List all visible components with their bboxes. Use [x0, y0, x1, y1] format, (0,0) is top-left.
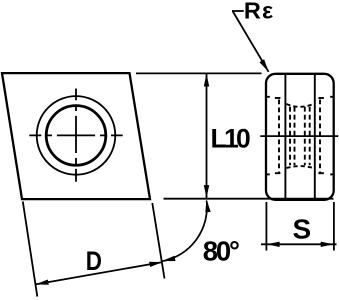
front view: horizontal centerline [29, 134, 122, 136]
side view: horizontal centerline [260, 135, 338, 137]
front view: hole bore circle [46, 106, 106, 166]
side view hidden: left edge tick top [266, 96, 270, 98]
dimension S: left arrowhead (points left) [267, 242, 280, 247]
side view hidden: bore curve bottom [286, 166, 313, 168]
angle 80°: arc [163, 201, 207, 262]
front view: vertical centerline [75, 89, 77, 182]
angle 80°: lower arrowhead (points down-left at extension line) [162, 256, 175, 261]
front view: countersink rim circle [37, 96, 116, 175]
dimension D: left extension line [23, 202, 38, 297]
corner radius leader: arrowhead [260, 59, 269, 72]
side view: left facet line [284, 75, 286, 199]
corner radius leader: diagonal line [233, 11, 269, 72]
side view: body outline (rounded rect) [266, 74, 334, 200]
side view hidden: outer dashed vertical right [319, 100, 321, 174]
side view hidden: bore dashed vertical 3 [304, 107, 306, 165]
svg-text:L10: L10 [211, 124, 251, 154]
side view hidden: countersink rim dash top-right [318, 97, 324, 99]
dimension L10: top extension line [136, 72, 262, 74]
dimension L10: bottom extension line [164, 198, 334, 200]
dimension D: right extension line [152, 203, 164, 279]
side view hidden: right edge tick top [330, 96, 334, 98]
dimension D: left arrowhead [36, 280, 49, 285]
svg-text:S: S [293, 213, 312, 244]
front view: insert body outline (80° parallelogram) [2, 73, 150, 199]
dimension S: right arrowhead (points right) [321, 242, 334, 247]
side view hidden: countersink rim dash bottom-right [318, 172, 324, 174]
side view hidden: right edge tick bottom [330, 173, 334, 175]
dimension S: dimension line [261, 243, 337, 245]
dimension S: right extension line [333, 202, 335, 251]
svg-text:80°: 80° [203, 235, 239, 266]
dimension L10: dimension line [206, 73, 208, 198]
side view hidden: outer dashed vertical left [278, 100, 280, 174]
dimension S: left extension line [265, 202, 267, 251]
dimension L10: bottom arrowhead [204, 185, 209, 198]
dimension D: dimension line [36, 262, 163, 284]
side view hidden: bore dashed vertical 1 [289, 107, 291, 165]
side view hidden: countersink rim dash top-left [275, 97, 281, 99]
side view hidden: bore dashed vertical 2 [294, 107, 296, 165]
dimension D: right arrowhead [149, 262, 162, 267]
svg-text:Rε: Rε [244, 0, 275, 23]
side view hidden: countersink rim dash bottom-left [275, 172, 281, 174]
corner radius leader: horizontal tail [232, 10, 244, 12]
dimension L10: top arrowhead [204, 74, 209, 87]
side view hidden: bore curve top [286, 104, 313, 107]
side view hidden: bore dashed vertical 4 [309, 107, 311, 165]
side view hidden: left edge tick bottom [266, 173, 270, 175]
svg-text:D: D [86, 246, 102, 276]
side view: right facet line [314, 75, 316, 199]
angle 80°: top arrowhead (points up at extension line) [205, 199, 210, 212]
